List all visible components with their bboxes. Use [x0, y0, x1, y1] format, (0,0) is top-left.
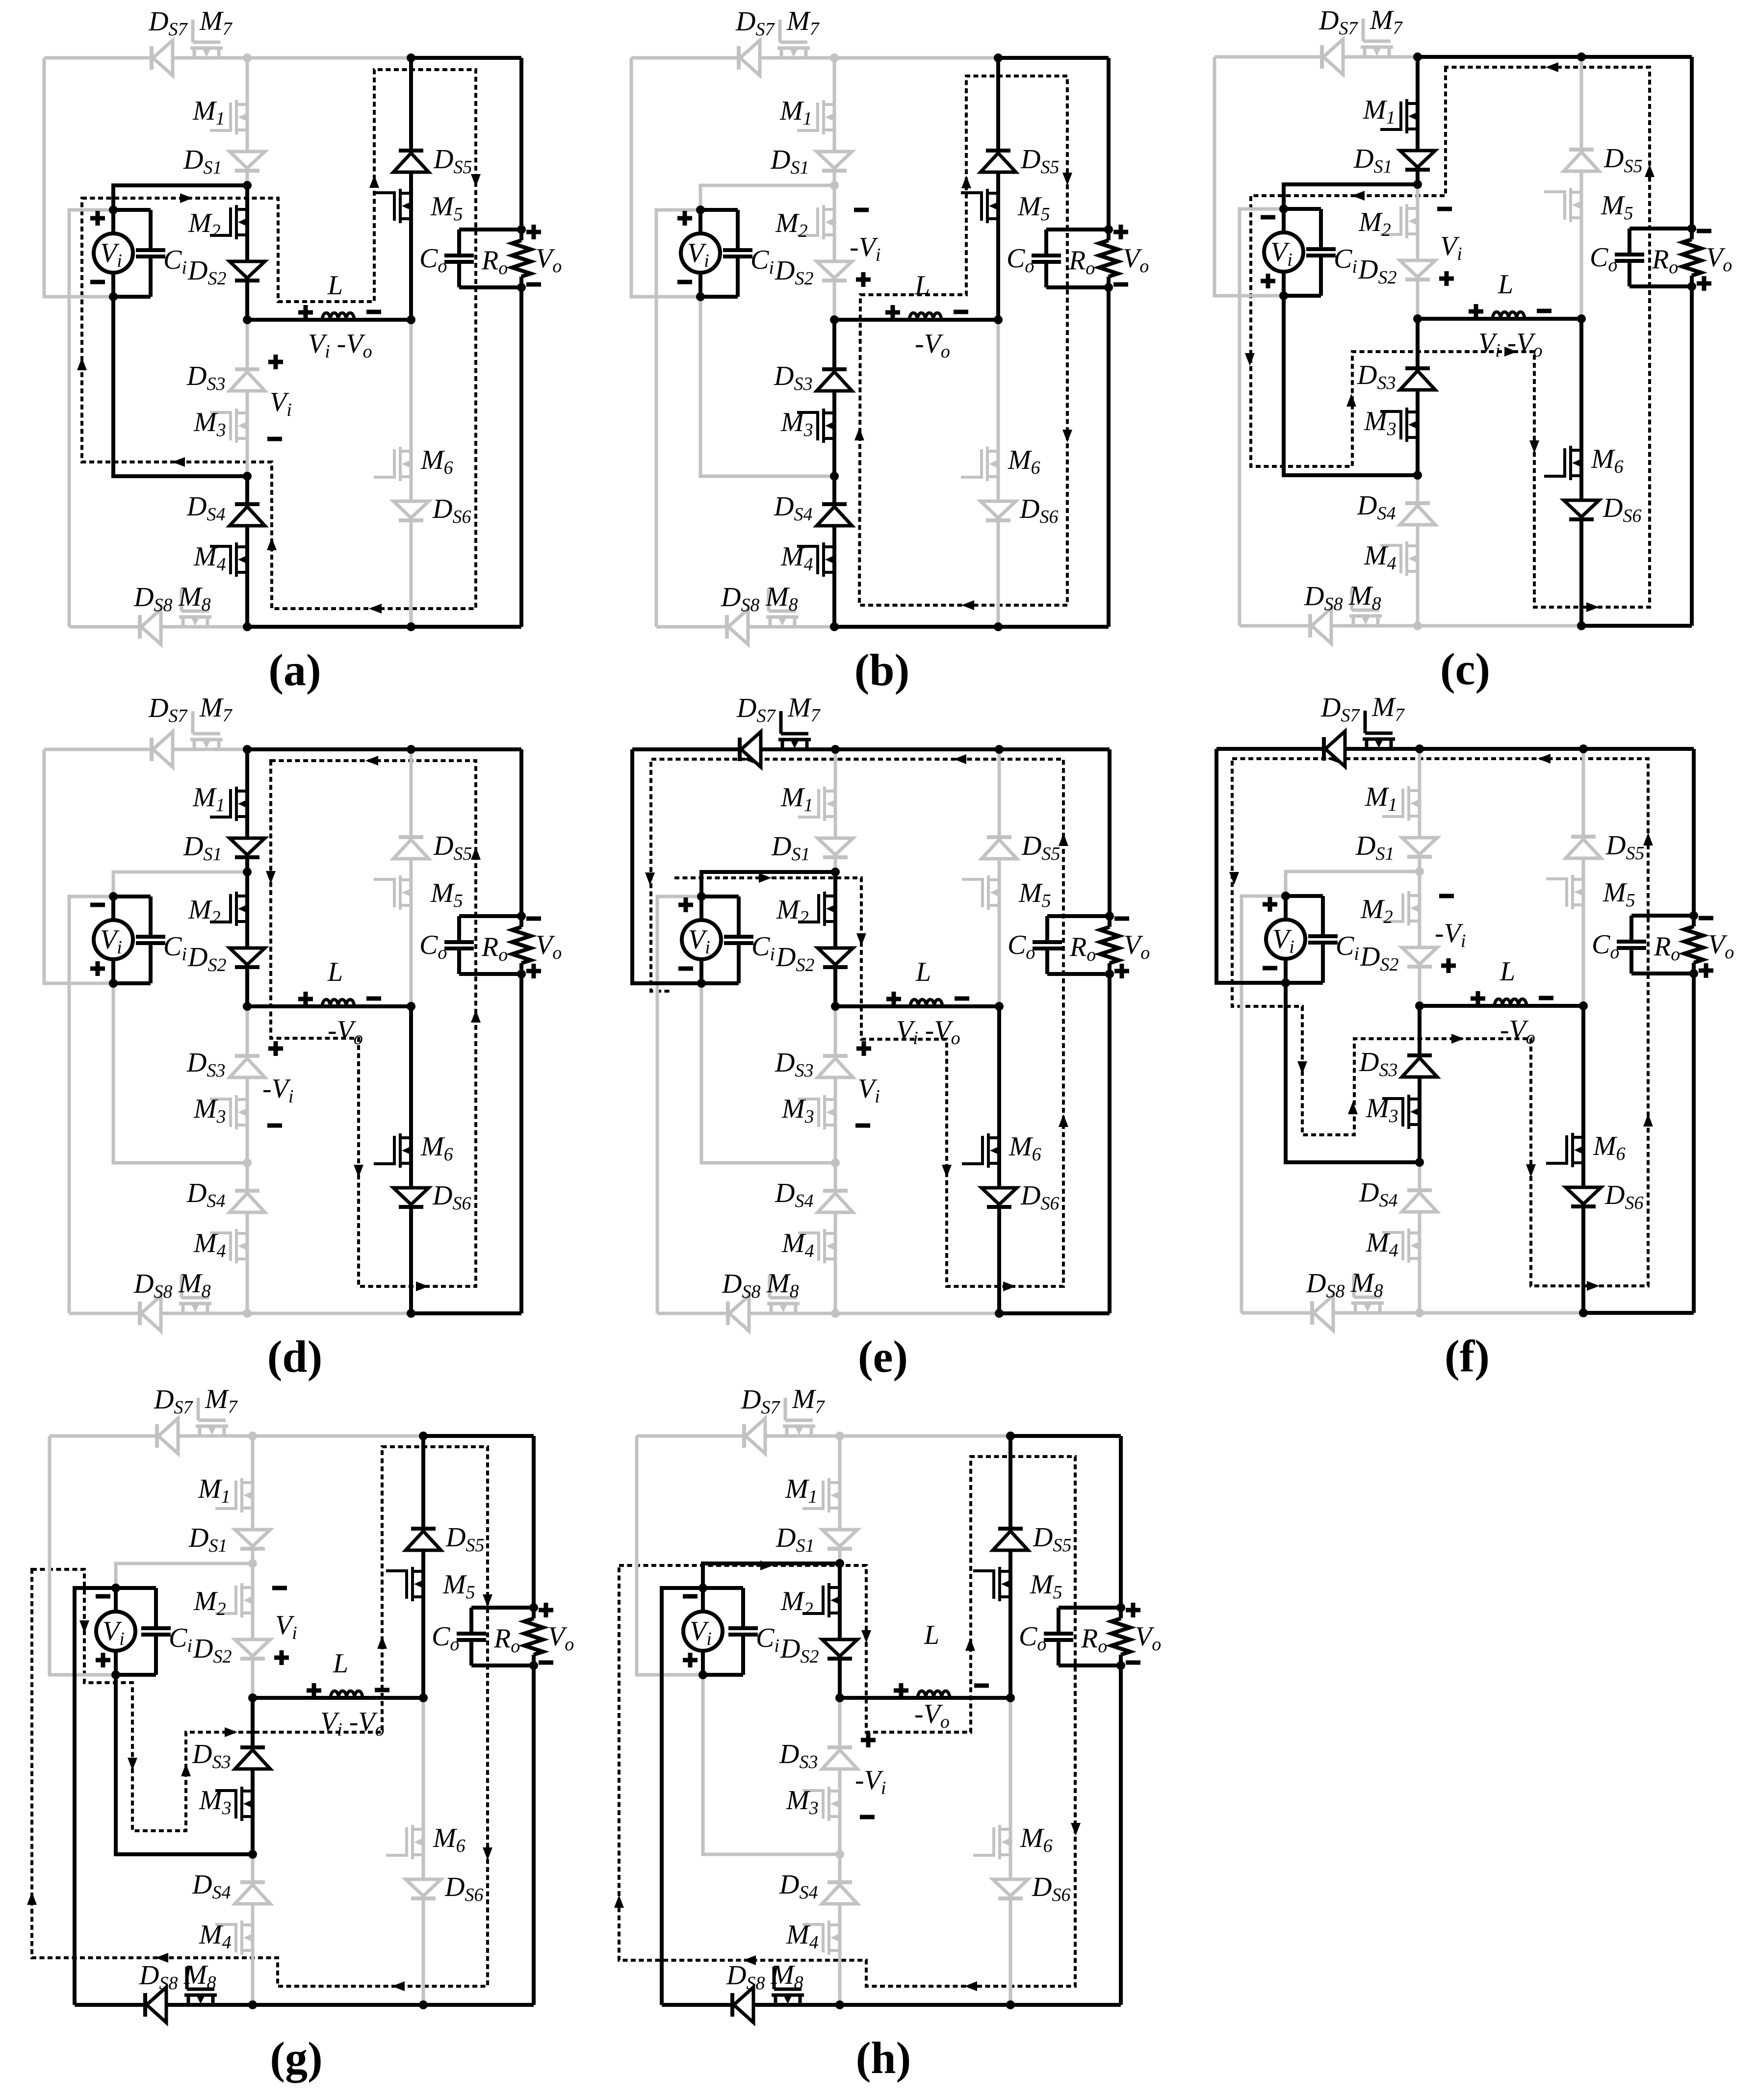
panel b wire left outer rail to Vi- node — [631, 58, 700, 297]
panel e transistor M2 — [798, 892, 836, 926]
panel f wire bottom rail right — [1583, 1311, 1694, 1315]
panel a transistor M6 — [374, 447, 412, 481]
panel c transistor M8 — [1349, 588, 1382, 626]
panel b voltage source Vi — [698, 210, 702, 297]
panel g wire top rail right — [423, 1434, 534, 1438]
panel b node: top rail / DS5 branch junction — [994, 53, 1003, 62]
panel a node 2 (inductor left) — [243, 315, 252, 324]
panel f wire top rail middle — [1420, 747, 1583, 751]
panel a node 1 (DS1-M2 junction) — [243, 181, 252, 190]
panel f node: top rail / M1 branch junction — [1415, 744, 1424, 753]
panel b wire top rail middle — [834, 56, 998, 60]
panel f diode DS5 — [1566, 837, 1601, 858]
panel h Vi polarity signs — [683, 1594, 698, 1599]
panel h wire chain DS3/M3 branch — [838, 1698, 842, 1854]
panel b wire chain DS3/M3 branch — [832, 320, 836, 476]
panel h wire right branch DS5/M5 — [1008, 1436, 1012, 1698]
panel e inductor L — [910, 999, 942, 1006]
panel c node: top rail / M1 branch junction — [1413, 52, 1422, 61]
panel c transistor M7 — [1361, 19, 1393, 57]
panel e transistor M3 — [798, 1095, 836, 1129]
panel f inductor polarity signs — [1471, 997, 1485, 1001]
panel g node 2 (inductor left) — [248, 1693, 257, 1702]
panel g transistor M8 — [184, 1967, 217, 2005]
panel c transistor M5 — [1544, 188, 1582, 222]
panel c node: top rail / DS5 branch junction — [1577, 52, 1586, 61]
panel h wire right rail upper — [1119, 1436, 1123, 1618]
panel f wire right branch DS5/M5 — [1582, 749, 1585, 1006]
panel g transistor M3 — [215, 1787, 253, 1821]
panel e wire left rail 2 (DS8/M8 branch) — [657, 896, 701, 1313]
panel h wire right branch M6/DS6 — [1009, 1698, 1012, 2005]
panel f transistor M5 — [1546, 875, 1584, 909]
panel d wire right branch DS5/M5 — [410, 749, 413, 1006]
panel h node: top rail / M1 branch junction — [835, 1432, 844, 1440]
panel a branch voltage label — [268, 360, 283, 364]
panel a diode DS7 — [152, 40, 173, 76]
panel a node: output bottom — [517, 283, 526, 292]
panel f branch voltage label — [1439, 894, 1454, 898]
panel c Vi polarity signs — [1261, 215, 1275, 220]
panel g voltage source Vi — [114, 1588, 118, 1675]
panel e wire top rail left (DS7/M7 branch) — [632, 747, 835, 751]
panel h node: chain / bottom rail junction — [835, 2000, 844, 2009]
panel c node: Vi top terminal — [1279, 205, 1288, 213]
panel e diode DS4 — [818, 1191, 853, 1212]
panel g diode DS2 — [235, 1639, 270, 1659]
panel g node: DS6 branch / bottom rail junction — [419, 2000, 428, 2009]
panel e node: Vi top terminal — [697, 892, 706, 901]
panel g wire left outer rail to Vi- node — [50, 1436, 116, 1675]
panel h wire right rail lower — [1119, 1655, 1123, 2005]
panel c wire chain M2/DS2 branch — [1416, 184, 1420, 319]
panel f voltage source Vi — [1284, 896, 1288, 983]
panel a resistor Ro — [512, 240, 531, 277]
panel b transistor M4 — [797, 542, 835, 577]
panel a inductor L — [322, 313, 354, 320]
panel c node 2 (inductor left) — [1413, 314, 1422, 323]
panel e wire bottom rail middle — [835, 1312, 999, 1315]
panel a transistor M4 — [210, 542, 248, 577]
panel g transistor M4 — [215, 1921, 253, 1955]
panel a node: chain / bottom rail junction — [243, 622, 252, 631]
panel f Vi polarity signs — [1263, 902, 1277, 907]
panel f wire top rail left (DS7/M7 branch) — [1216, 747, 1420, 751]
panel a wire right branch M6/DS6 — [410, 320, 413, 627]
panel d wire top rail middle — [247, 747, 411, 751]
svg-text:L: L — [924, 1620, 939, 1650]
svg-text:Vi -Vo: Vi -Vo — [308, 329, 372, 362]
panel f capacitor Ci — [1286, 894, 1323, 898]
panel a wire chain M1/DS1 branch — [246, 58, 249, 185]
panel d transistor M1 — [210, 787, 248, 821]
panel c wire right branch M6/DS6 — [1579, 319, 1583, 626]
panel b transistor M7 — [777, 20, 810, 58]
panel c wire inductor rail — [1418, 317, 1581, 321]
panel a capacitor Co — [459, 228, 521, 231]
panel f inductor L — [1495, 999, 1526, 1006]
panel b wire top rail right — [998, 56, 1109, 60]
panel a wire top rail middle — [247, 56, 411, 60]
panel d node: Vi bottom terminal — [109, 979, 118, 988]
panel a wire right rail upper — [519, 58, 523, 240]
panel g transistor M6 — [386, 1825, 424, 1859]
svg-text:L: L — [327, 270, 343, 301]
panel d wire bottom rail middle — [247, 1312, 411, 1315]
panel h wire bottom rail middle — [840, 2003, 1010, 2007]
svg-text:L: L — [1498, 269, 1513, 300]
panel f output polarity signs — [1699, 916, 1713, 921]
panel a wire right branch DS5/M5 — [409, 58, 413, 320]
panel d wire right rail upper — [519, 749, 523, 927]
panel b node: chain / bottom rail junction — [830, 622, 839, 631]
panel b node 1 (DS1-M2 junction) — [830, 181, 839, 190]
svg-text:(a): (a) — [268, 645, 321, 695]
panel h transistor M8 — [772, 1967, 804, 2005]
panel a node: top rail / DS5 branch junction — [407, 53, 415, 62]
panel b diode DS1 — [817, 152, 852, 171]
panel h node: Vi top terminal — [698, 1584, 707, 1592]
panel c diode DS3 — [1400, 368, 1435, 390]
panel b wire right branch DS5/M5 — [996, 58, 1000, 320]
panel h diode DS6 — [993, 1879, 1028, 1898]
svg-text:L: L — [327, 957, 343, 987]
panel e diode DS5 — [982, 837, 1017, 859]
panel g wire right rail upper — [532, 1436, 536, 1618]
panel d transistor M6 — [374, 1133, 412, 1168]
panel e wire chain DS3/M3 branch — [834, 1006, 837, 1163]
panel h current-direction arrows — [760, 1561, 773, 1570]
panel e current-direction arrows — [759, 873, 772, 883]
panel e diode DS2 — [818, 948, 853, 967]
svg-text:(d): (d) — [267, 1332, 322, 1382]
svg-text:(g): (g) — [270, 2033, 322, 2083]
panel b node: output bottom — [1104, 283, 1113, 292]
panel g wire chain M1/DS1 branch — [251, 1436, 255, 1563]
panel c wire right rail upper — [1690, 57, 1694, 239]
panel f diode DS2 — [1402, 948, 1437, 967]
panel g transistor M1 — [215, 1478, 253, 1512]
panel a wire inductor rail — [247, 318, 411, 322]
panel c diode DS5 — [1564, 150, 1599, 171]
panel d node: output top — [517, 912, 526, 921]
panel b wire bottom rail right — [998, 625, 1109, 629]
panel f transistor M2 — [1382, 891, 1420, 925]
panel d transistor M2 — [210, 892, 248, 926]
panel c wire chain DS3/M3 branch — [1416, 319, 1420, 475]
panel f wire Vi- terminal down to node3 — [1286, 983, 1420, 1162]
panel d branch voltage label — [268, 1047, 283, 1051]
panel a transistor M5 — [374, 189, 412, 223]
panel h dashed current-path loop — [619, 1457, 1075, 1986]
panel e wire right rail upper — [1108, 749, 1112, 927]
panel h wire chain DS4/M4 branch — [838, 1854, 842, 2005]
panel e wire right branch DS5/M5 — [998, 749, 1001, 1006]
panel e wire chain M2/DS2 branch — [833, 872, 837, 1006]
panel a diode DS5 — [393, 151, 429, 172]
panel g node: top rail / M1 branch junction — [248, 1432, 257, 1440]
panel h transistor M7 — [783, 1398, 815, 1436]
panel d wire chain DS3/M3 branch — [246, 1006, 249, 1163]
panel h diode DS3 — [822, 1747, 857, 1769]
panel a Vi polarity signs — [90, 216, 105, 221]
panel h node: output top — [1116, 1603, 1125, 1612]
panel e node: output top — [1105, 912, 1114, 921]
panel f wire bottom rail left — [1241, 1311, 1420, 1315]
panel f diode DS4 — [1402, 1190, 1437, 1212]
panel b wire left rail 2 (DS8/M8 branch) — [656, 210, 700, 627]
panel a diode DS2 — [230, 261, 265, 281]
panel h diode DS4 — [822, 1882, 857, 1904]
panel c inductor L — [1493, 312, 1525, 319]
panel h wire node1 to Vi+ terminal — [703, 1563, 840, 1588]
panel g output polarity signs — [539, 1608, 553, 1613]
panel d node: Vi top terminal — [109, 892, 118, 901]
panel f current-direction arrows — [1327, 754, 1340, 764]
panel h inductor polarity signs — [894, 1689, 908, 1693]
panel b wire chain DS4/M4 branch — [832, 476, 836, 627]
panel b wire chain M1/DS1 branch — [833, 58, 836, 185]
panel c branch voltage label — [1437, 207, 1452, 211]
svg-text:L: L — [915, 957, 931, 987]
panel c node: output top — [1687, 224, 1696, 233]
panel h wire inductor rail — [840, 1696, 1010, 1700]
panel h diode DS7 — [744, 1418, 765, 1454]
panel a dashed current-path loop — [82, 70, 476, 609]
panel c wire chain DS4/M4 branch — [1416, 475, 1420, 626]
panel h transistor M1 — [802, 1478, 840, 1512]
panel c node: chain / bottom rail junction — [1413, 621, 1422, 630]
svg-text:L: L — [914, 270, 930, 301]
panel b wire chain M2/DS2 branch — [833, 185, 836, 320]
panel a diode DS3 — [230, 369, 265, 391]
panel g dashed current-path loop — [32, 1447, 488, 1986]
panel e wire bottom rail right — [999, 1311, 1110, 1315]
panel g node: chain / bottom rail junction — [248, 2000, 257, 2009]
svg-text:(f): (f) — [1445, 1331, 1490, 1381]
panel f wire bottom rail middle — [1420, 1311, 1583, 1315]
svg-text:L: L — [1499, 956, 1515, 987]
panel f diode DS1 — [1402, 838, 1437, 857]
panel c current-direction arrows — [1352, 191, 1365, 201]
panel g node 1 (DS1-M2 junction) — [248, 1559, 257, 1568]
panel d node: top rail / M1 branch junction — [243, 745, 252, 754]
panel d diode DS4 — [230, 1191, 265, 1212]
panel d wire chain M2/DS2 branch — [245, 872, 249, 1006]
panel f diode DS7 — [1324, 731, 1345, 767]
panel c wire bottom rail right — [1581, 624, 1692, 628]
panel c voltage source Vi — [1282, 209, 1286, 296]
panel c transistor M1 — [1380, 99, 1418, 133]
panel h wire Vi- terminal down to node3 — [703, 1675, 840, 1854]
panel g wire chain M2/DS2 branch — [251, 1563, 255, 1698]
panel e node: DS6 branch / bottom rail junction — [995, 1309, 1004, 1318]
panel h diode DS5 — [993, 1529, 1028, 1550]
panel c wire Vi- terminal down to node3 — [1284, 296, 1418, 475]
panel d node: inductor right / DS5-M6 junction — [407, 1002, 415, 1011]
panel c wire top rail left (DS7/M7 branch) — [1215, 55, 1418, 59]
svg-text:L: L — [333, 1648, 348, 1679]
panel a current-direction arrows — [180, 193, 193, 203]
panel f transistor M3 — [1382, 1095, 1420, 1129]
panel d diode DS6 — [393, 1188, 429, 1207]
panel a transistor M1 — [210, 100, 248, 134]
panel f wire inductor rail — [1420, 1004, 1583, 1008]
panel e diode DS6 — [982, 1188, 1017, 1207]
panel c wire node1 to Vi+ terminal — [1284, 184, 1418, 209]
panel h diode DS2 — [822, 1639, 857, 1659]
panel f wire node1 to Vi+ terminal — [1286, 871, 1420, 896]
panel b capacitor Ci — [700, 208, 738, 212]
panel a wire node1 to Vi+ terminal — [113, 185, 247, 210]
panel g transistor M5 — [386, 1567, 424, 1601]
panel a node: top rail / M1 branch junction — [243, 53, 252, 62]
panel d current-direction arrows — [266, 871, 276, 884]
panel h node: inductor right / DS5-M6 junction — [1006, 1693, 1015, 1702]
svg-text:(c): (c) — [1440, 644, 1490, 694]
panel g diode DS6 — [406, 1879, 441, 1898]
panel f diode DS3 — [1402, 1055, 1437, 1077]
panel f node: chain / bottom rail junction — [1415, 1308, 1424, 1317]
panel g node 3 (M3-DS4 junction) — [248, 1850, 257, 1859]
panel a diode DS8 — [140, 609, 161, 644]
panel f transistor M8 — [1351, 1275, 1384, 1313]
panel f node 1 (DS1-M2 junction) — [1415, 867, 1424, 876]
panel b resistor Ro — [1099, 240, 1118, 277]
panel d node 2 (inductor left) — [243, 1002, 252, 1011]
panel b branch voltage label — [854, 208, 869, 212]
panel c wire right rail lower — [1690, 276, 1694, 626]
panel f node: DS6 branch / bottom rail junction — [1579, 1308, 1588, 1317]
panel a wire bottom rail left — [69, 625, 247, 629]
panel d diode DS7 — [152, 732, 173, 767]
panel g wire node1 to Vi+ terminal — [116, 1563, 253, 1588]
panel c node 3 (M3-DS4 junction) — [1413, 471, 1422, 480]
panel c node: output bottom — [1687, 282, 1696, 291]
panel h node 2 (inductor left) — [835, 1693, 844, 1702]
panel b wire right rail lower — [1107, 277, 1111, 627]
panel b diode DS6 — [981, 501, 1016, 520]
panel a node: Vi bottom terminal — [109, 292, 118, 301]
panel c diode DS1 — [1400, 151, 1435, 170]
panel b inductor L — [909, 313, 941, 320]
panel h diode DS8 — [732, 1987, 753, 2023]
panel h node 3 (M3-DS4 junction) — [835, 1850, 844, 1859]
panel f wire right rail lower — [1692, 963, 1696, 1313]
panel b wire Vi- terminal down to node3 — [700, 297, 834, 476]
panel b node: Vi top terminal — [696, 205, 705, 214]
panel g diode DS5 — [406, 1529, 441, 1550]
panel e wire Vi- terminal down to node3 — [701, 983, 835, 1163]
panel d wire chain M1/DS1 branch — [245, 749, 249, 872]
panel e wire top rail right — [999, 747, 1110, 751]
panel f diode DS8 — [1312, 1295, 1333, 1331]
panel h transistor M5 — [973, 1567, 1011, 1601]
panel e transistor M1 — [798, 787, 836, 821]
panel g current-direction arrows — [79, 1620, 89, 1633]
panel d resistor Ro — [512, 927, 531, 963]
panel g inductor polarity signs — [307, 1689, 321, 1693]
panel a wire bottom rail middle — [247, 625, 411, 629]
panel g wire Vi- terminal down to node3 — [116, 1675, 253, 1854]
panel h node 1 (DS1-M2 junction) — [835, 1559, 844, 1568]
panel d capacitor Ci — [113, 895, 151, 898]
panel g wire chain DS4/M4 branch — [251, 1854, 255, 2005]
panel g node: output bottom — [529, 1661, 538, 1670]
panel b dashed current-path loop — [859, 76, 1067, 605]
panel d node: top rail / DS5 branch junction — [407, 745, 415, 754]
panel c capacitor Co — [1629, 227, 1692, 230]
panel d wire top rail right — [411, 747, 521, 751]
panel b capacitor Co — [1046, 228, 1109, 231]
panel f wire right branch M6/DS6 — [1581, 1006, 1585, 1313]
panel d wire Vi- terminal down to node3 — [113, 983, 247, 1163]
panel b wire right rail upper — [1107, 58, 1111, 240]
panel c node: Vi bottom terminal — [1279, 291, 1288, 300]
panel g diode DS3 — [235, 1747, 270, 1769]
panel a node: Vi top terminal — [109, 205, 118, 214]
panel g diode DS1 — [235, 1530, 270, 1549]
panel f node 2 (inductor left) — [1415, 1001, 1424, 1010]
panel a wire chain DS4/M4 branch — [245, 476, 249, 627]
panel g diode DS7 — [157, 1418, 178, 1454]
panel h wire left rail 2 (DS8/M8 branch) — [662, 1588, 703, 2005]
panel f node: output top — [1689, 911, 1698, 920]
panel e node: inductor right / DS5-M6 junction — [995, 1002, 1004, 1011]
panel e transistor M6 — [962, 1133, 1000, 1168]
panel b transistor M5 — [961, 189, 999, 223]
panel h transistor M6 — [973, 1825, 1011, 1859]
panel h wire bottom rail left — [662, 2003, 840, 2007]
panel c wire left outer rail to Vi- node — [1215, 57, 1284, 296]
panel d inductor L — [322, 999, 354, 1006]
panel h node: top rail / DS5 branch junction — [1006, 1432, 1015, 1440]
panel f node 3 (M3-DS4 junction) — [1415, 1158, 1424, 1167]
panel d node: chain / bottom rail junction — [243, 1309, 252, 1318]
panel b transistor M6 — [961, 447, 999, 481]
panel d output polarity signs — [526, 917, 541, 921]
panel e node: output bottom — [1105, 970, 1114, 978]
panel g Vi polarity signs — [96, 1594, 110, 1599]
panel e wire left outer rail to Vi- node — [632, 749, 701, 983]
panel h wire top rail left (DS7/M7 branch) — [637, 1434, 840, 1438]
panel d wire bottom rail left — [69, 1312, 247, 1315]
svg-text:(b): (b) — [854, 645, 909, 695]
panel d transistor M4 — [210, 1229, 248, 1263]
panel d capacitor Co — [459, 914, 521, 918]
panel b diode DS5 — [981, 151, 1016, 172]
panel f wire left rail 2 (DS8/M8 branch) — [1241, 896, 1286, 1313]
panel h voltage source Vi — [701, 1588, 705, 1675]
panel g wire bottom rail middle — [253, 2003, 423, 2007]
panel h branch voltage label — [861, 1738, 876, 1742]
panel d diode DS8 — [140, 1296, 161, 1331]
panel e node 3 (M3-DS4 junction) — [831, 1158, 840, 1167]
panel c inductor polarity signs — [1469, 309, 1483, 314]
panel e wire right branch M6/DS6 — [997, 1006, 1001, 1313]
panel b transistor M8 — [766, 589, 799, 627]
panel b diode DS7 — [739, 40, 760, 76]
panel g node: Vi bottom terminal — [111, 1670, 120, 1679]
svg-text:Vi -Vo: Vi -Vo — [320, 1707, 385, 1740]
panel a wire left outer rail to Vi- node — [44, 58, 113, 297]
panel b diode DS3 — [817, 369, 852, 391]
panel g capacitor Ci — [116, 1586, 156, 1590]
panel f node: Vi top terminal — [1281, 892, 1290, 900]
panel e output polarity signs — [1114, 917, 1129, 921]
panel f node: inductor right / DS5-M6 junction — [1579, 1001, 1588, 1010]
panel b wire right branch M6/DS6 — [997, 320, 1000, 627]
